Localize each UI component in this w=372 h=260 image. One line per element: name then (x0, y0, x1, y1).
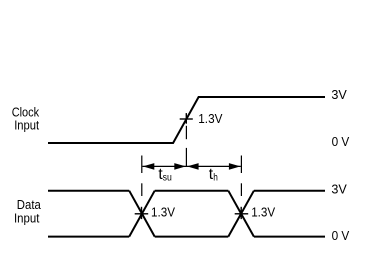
th dimension arrow (187, 163, 241, 170)
svg-text:Data: Data (17, 197, 42, 212)
clock 1.3V cross mark (180, 113, 193, 124)
data crossing X left (129, 191, 155, 237)
svg-text:1.3V: 1.3V (198, 111, 222, 126)
data left 1.3V cross mark (135, 207, 149, 219)
svg-text:3V: 3V (331, 87, 347, 102)
setup/hold dimension: left tick (data crossing extension) (141, 156, 143, 197)
svg-text:1.3V: 1.3V (251, 205, 275, 220)
svg-text:su: su (163, 173, 172, 184)
setup/hold dimension: right tick (data crossing extension) (240, 156, 242, 197)
svg-text:h: h (213, 172, 218, 183)
data right 1.3V cross mark (235, 207, 249, 219)
svg-text:1.3V: 1.3V (151, 205, 175, 220)
svg-text:Input: Input (14, 118, 39, 133)
tsu dimension arrow (142, 163, 186, 170)
svg-text:Input: Input (14, 211, 40, 226)
svg-text:0 V: 0 V (332, 228, 350, 243)
data waveform top rail (48, 190, 325, 192)
data waveform bottom rail (48, 236, 325, 238)
data crossing X right (228, 191, 254, 237)
svg-text:0 V: 0 V (332, 134, 350, 149)
svg-text:3V: 3V (331, 181, 347, 196)
clock waveform (48, 97, 325, 143)
setup/hold dimension: center tick (clock crossing extension) (185, 126, 187, 167)
